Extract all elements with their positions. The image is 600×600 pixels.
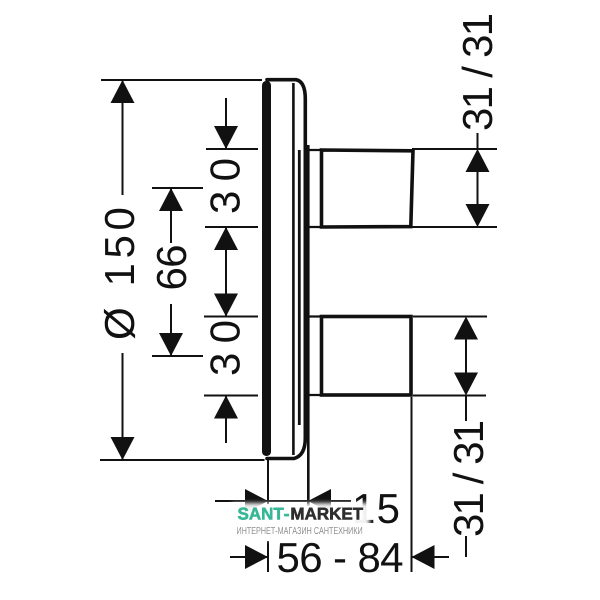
arrow 31 bottom up: [454, 317, 478, 340]
dimension line 56-84 left tail: [230, 556, 268, 558]
handle 2 neck bottom line: [305, 394, 322, 396]
plate inner rim contour line: [292, 83, 295, 455]
dimension 31/31 bottom line: [465, 340, 467, 373]
extension line L7 right handle 2 bottom: [413, 395, 486, 397]
label 66: [157, 246, 187, 288]
arrow 30 down at L2: [214, 126, 238, 149]
escutcheon plate outline (side view): [267, 80, 305, 459]
extension line plate face vertical lower part: [267, 541, 269, 572]
watermark SANT-: [238, 508, 289, 520]
label 30 upper: [210, 160, 240, 213]
extension line L4 left handle 1 bottom: [205, 226, 258, 228]
extension line L2 right handle 1 top: [412, 148, 497, 150]
handle 1 neck bottom line: [305, 226, 322, 228]
arrow D150 top: [111, 80, 135, 103]
watermark subtitle: [237, 527, 362, 534]
dimension line 15: [215, 500, 351, 502]
extension line L4 right handle 1 bottom: [412, 226, 497, 228]
extension line L1 plate top: [101, 79, 262, 81]
label 15: [355, 494, 398, 523]
extension line L8 plate bottom: [100, 459, 265, 461]
extension line dome apex vertical: [307, 145, 310, 506]
plate middle contour line: [298, 150, 301, 425]
arrow 31 bottom down: [454, 373, 478, 396]
arrow D150 bottom: [111, 437, 135, 460]
handle 2 neck top line: [305, 315, 322, 317]
extension line L5 right handle 2 top: [413, 316, 487, 318]
arrow 15 left: [245, 489, 268, 513]
label 31/31 top: [462, 15, 493, 129]
arrow 15 right: [308, 489, 331, 513]
arrow 30 up at L7: [214, 396, 238, 419]
handle 1 body: [322, 150, 414, 227]
label 31/31 bottom: [453, 422, 484, 535]
watermark MARKET: [292, 508, 363, 520]
dimension line 30 chain middle: [225, 227, 227, 317]
dimension line 30 chain tail above: [225, 98, 227, 149]
dimension 31/31 bottom leader upper: [465, 396, 467, 422]
arrow 31 top down: [466, 204, 490, 227]
dimension line 56-84 right tail: [412, 556, 450, 558]
dimension 31/31 top line: [477, 172, 479, 204]
dimension line 30 chain tail below: [225, 396, 227, 444]
handle 2 body: [322, 317, 412, 396]
extension line L3 handle 1 centre: [152, 187, 203, 189]
arrow 56-84 left: [245, 545, 268, 569]
plate front face thick bar: [262, 81, 271, 456]
dimension line 66 lower segment: [170, 304, 172, 356]
extension line L5 left handle 2 top: [204, 316, 258, 318]
extension line handle end vertical: [411, 397, 413, 572]
extension line L6 handle 2 centre: [152, 355, 203, 357]
arrow 66 top: [159, 188, 183, 211]
arrow 66 bottom: [159, 333, 183, 356]
dimension line D150 upper segment: [122, 80, 124, 195]
label 56-84: [278, 543, 402, 573]
arrow 30 down at L5: [214, 294, 238, 317]
arrow 31 top up: [466, 149, 490, 172]
extension line plate face vertical: [267, 460, 269, 504]
handle 1 neck top line: [305, 149, 322, 151]
dimension line 66 upper segment: [170, 188, 172, 243]
extension line L2 left handle 1 top: [206, 148, 258, 150]
label 30 lower: [210, 322, 240, 375]
dimension 31/31 top leader: [477, 133, 479, 149]
dimension line D150 lower segment: [122, 353, 124, 460]
label D150: [104, 209, 135, 339]
dimension 31/31 bottom leader lower: [465, 536, 467, 557]
extension line L7 left handle 2 bottom: [204, 395, 258, 397]
arrow 56-84 right: [412, 545, 435, 569]
arrow 30 up at L4: [214, 227, 238, 250]
